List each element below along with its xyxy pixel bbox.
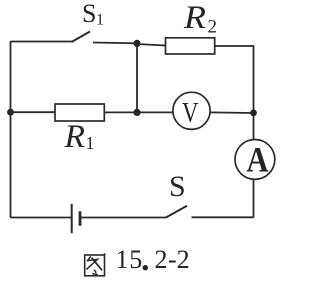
wire right vertical top — [253, 45, 255, 139]
wire bottom right horizontal — [192, 216, 254, 218]
wire bottom left horizontal — [11, 217, 72, 219]
wire top middle horizontal — [93, 42, 137, 45]
svg-text:15: 15 — [116, 245, 143, 274]
svg-text:V: V — [182, 97, 199, 129]
junction node middle — [133, 109, 140, 116]
voltmeter V circle — [173, 92, 210, 129]
label S1 — [82, 0, 104, 29]
resistor R1 box — [55, 104, 104, 121]
wire top left horizontal — [11, 41, 73, 43]
switch S blade — [166, 206, 188, 218]
resistor R2 box — [166, 38, 215, 54]
svg-text:S: S — [82, 0, 96, 28]
wire R2 left lead — [137, 44, 166, 46]
wire voltmeter to right vertical — [210, 111, 254, 114]
wire bottom middle horizontal — [80, 217, 166, 219]
wire middle left horizontal — [11, 111, 56, 113]
wire right vertical bottom — [253, 179, 255, 217]
svg-text:2: 2 — [208, 17, 218, 38]
junction node left — [7, 109, 14, 116]
battery short plate — [79, 211, 82, 225]
ammeter A circle — [235, 140, 275, 180]
wire left vertical — [10, 41, 12, 218]
caption period — [143, 265, 148, 270]
svg-text:A: A — [247, 140, 269, 180]
label R2 — [183, 0, 217, 37]
wire middle horizontal to voltmeter — [104, 111, 173, 113]
svg-text:R: R — [63, 119, 85, 155]
svg-text:2-2: 2-2 — [155, 245, 190, 274]
svg-text:1: 1 — [96, 12, 104, 29]
switch S1 blade — [72, 32, 91, 43]
battery long plate — [71, 204, 73, 233]
svg-text:S: S — [169, 170, 186, 203]
wire middle vertical — [136, 43, 138, 112]
junction node top middle — [133, 40, 140, 47]
label R1 — [63, 119, 94, 155]
svg-text:1: 1 — [86, 133, 95, 153]
junction node right — [250, 110, 257, 117]
svg-text:R: R — [183, 0, 206, 36]
caption character tu (figure) — [85, 253, 105, 276]
wire R2 right lead — [215, 45, 254, 47]
